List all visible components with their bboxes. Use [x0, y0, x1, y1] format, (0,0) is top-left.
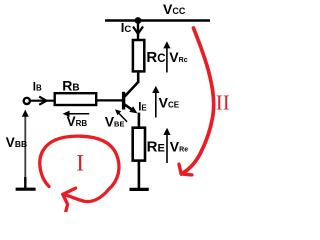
- svg-text:RE: RE: [147, 139, 165, 156]
- svg-text:VCE: VCE: [159, 95, 180, 111]
- transistor Q1 base bar: [122, 92, 125, 110]
- svg-text:VCC: VCC: [163, 1, 186, 17]
- wire RB to base: [96, 99, 123, 101]
- voltage arrow VRc: [163, 41, 170, 72]
- wire rail to RC: [137, 21, 139, 41]
- source line VBB with arrow: [24, 113, 26, 178]
- voltage arrow VRe: [163, 128, 170, 163]
- svg-text:IC: IC: [121, 20, 132, 35]
- junction dot at collector rail: [135, 17, 142, 24]
- red loop II stroke: [181, 28, 214, 174]
- resistor RE: [133, 128, 145, 161]
- svg-text:RC: RC: [146, 49, 165, 66]
- svg-text:RB: RB: [62, 78, 79, 94]
- svg-text:VRc: VRc: [169, 49, 187, 65]
- wire node to RB with current arrow IB: [31, 100, 55, 102]
- svg-text:IE: IE: [138, 102, 147, 114]
- voltage arrow VRB: [63, 111, 90, 117]
- ground under RE: [130, 188, 149, 191]
- svg-text:VBB: VBB: [6, 135, 27, 150]
- wire RC to collector: [124, 71, 138, 97]
- current arrow IC: [133, 27, 143, 34]
- wire RE to ground: [138, 161, 141, 189]
- wire emitter to RE: [138, 113, 141, 128]
- resistor RC: [133, 40, 144, 71]
- svg-text:VRe: VRe: [170, 139, 188, 155]
- red loop I stroke: [40, 136, 119, 201]
- svg-text:VRB: VRB: [67, 114, 88, 129]
- transistor Q1 emitter with arrow: [124, 104, 137, 113]
- red loop II arrowhead: [179, 164, 192, 175]
- voltage arrow VBE: [115, 109, 127, 122]
- red loop I arrowhead: [63, 188, 76, 212]
- VCC rail: [105, 19, 210, 21]
- svg-text:IB: IB: [33, 81, 42, 93]
- resistor RB: [55, 93, 96, 105]
- ground left: [16, 188, 36, 191]
- svg-text:I: I: [76, 150, 84, 176]
- voltage arrow VCE: [152, 86, 159, 118]
- input node terminal circle: [24, 98, 30, 104]
- svg-text:II: II: [216, 91, 230, 115]
